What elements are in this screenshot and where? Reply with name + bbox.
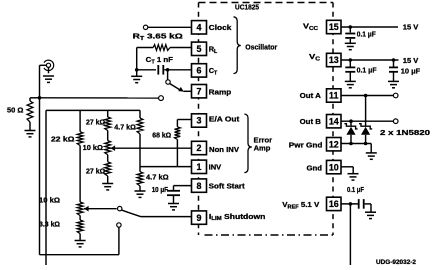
svg-text:4.7 kΩ: 4.7 kΩ <box>146 173 169 182</box>
svg-text:INV: INV <box>209 162 222 171</box>
svg-text:Ramp: Ramp <box>209 88 232 97</box>
svg-text:9: 9 <box>197 213 202 223</box>
svg-text:UDG-92032-2: UDG-92032-2 <box>376 260 417 265</box>
svg-text:10 μF: 10 μF <box>401 66 421 75</box>
svg-text:14: 14 <box>329 116 339 126</box>
svg-text:CT 1 nF: CT 1 nF <box>146 55 174 65</box>
svg-text:12: 12 <box>329 139 339 149</box>
svg-text:4: 4 <box>197 23 202 33</box>
svg-text:Gnd: Gnd <box>307 163 323 172</box>
svg-text:16: 16 <box>329 199 339 209</box>
svg-text:22 kΩ: 22 kΩ <box>51 135 74 144</box>
svg-text:Pwr Gnd: Pwr Gnd <box>289 140 323 149</box>
svg-text:6: 6 <box>197 66 202 76</box>
svg-text:8: 8 <box>197 181 202 191</box>
svg-text:11: 11 <box>329 91 338 101</box>
svg-text:Clock: Clock <box>209 23 233 32</box>
svg-text:10: 10 <box>329 162 339 172</box>
svg-text:2: 2 <box>197 143 202 153</box>
svg-text:2 x 1N5820: 2 x 1N5820 <box>380 128 430 137</box>
svg-text:1: 1 <box>197 162 202 172</box>
svg-text:50 Ω: 50 Ω <box>7 106 23 115</box>
svg-text:0.1 μF: 0.1 μF <box>357 30 376 39</box>
svg-text:27 kΩ: 27 kΩ <box>86 167 105 176</box>
svg-text:Non INV: Non INV <box>209 145 239 154</box>
svg-text:15 V: 15 V <box>403 23 419 32</box>
svg-text:4.7 kΩ: 4.7 kΩ <box>114 123 136 132</box>
svg-text:0.1 μF: 0.1 μF <box>357 66 377 75</box>
svg-text:15 V: 15 V <box>403 56 419 65</box>
svg-text:13: 13 <box>329 55 339 65</box>
svg-text:10 kΩ: 10 kΩ <box>39 196 60 205</box>
svg-text:Out A: Out A <box>300 91 322 100</box>
svg-text:3.3 kΩ: 3.3 kΩ <box>39 220 60 229</box>
svg-text:7: 7 <box>197 86 202 96</box>
svg-text:15: 15 <box>329 22 339 32</box>
svg-text:UC1825: UC1825 <box>235 3 259 12</box>
svg-text:Oscillator: Oscillator <box>245 42 277 51</box>
svg-text:27 kΩ: 27 kΩ <box>86 118 105 127</box>
svg-text:3: 3 <box>197 116 202 126</box>
svg-text:10 μF: 10 μF <box>152 185 169 194</box>
svg-text:0.1 μF: 0.1 μF <box>347 185 364 194</box>
svg-text:Soft Start: Soft Start <box>209 181 246 190</box>
svg-text:5: 5 <box>197 44 202 54</box>
svg-text:68 kΩ: 68 kΩ <box>152 131 171 140</box>
svg-text:Out B: Out B <box>300 117 321 126</box>
svg-text:Amp: Amp <box>254 143 271 152</box>
svg-text:10 kΩ: 10 kΩ <box>83 143 103 152</box>
svg-text:E/A Out: E/A Out <box>209 114 240 123</box>
